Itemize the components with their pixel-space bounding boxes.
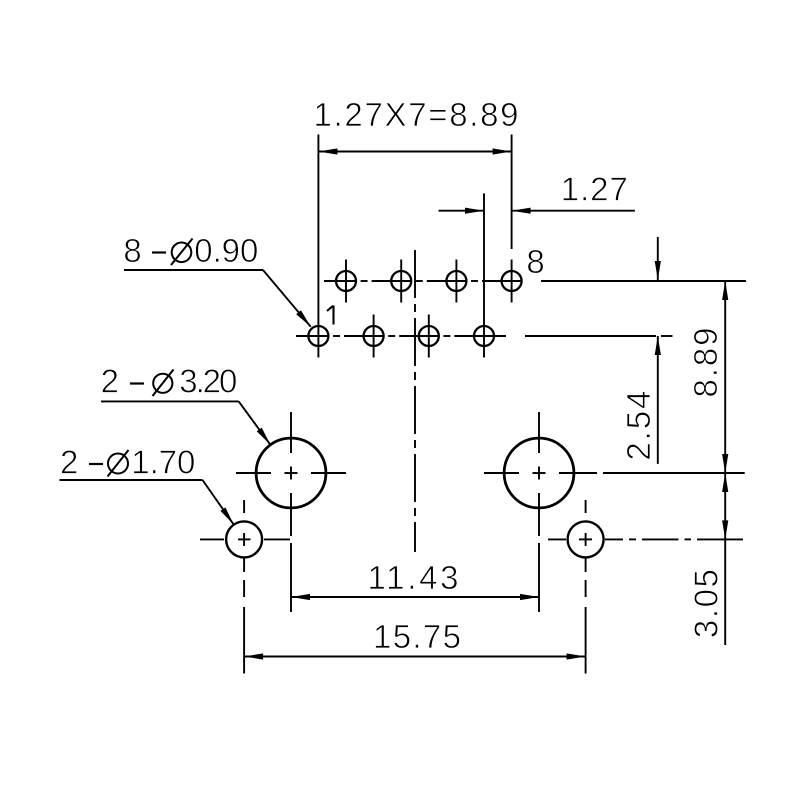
svg-text:2.54: 2.54: [620, 391, 657, 461]
svg-text:3.05: 3.05: [687, 569, 724, 638]
svg-text:1.27: 1.27: [561, 170, 628, 207]
svg-text:3.20: 3.20: [179, 363, 237, 400]
svg-text:1.27X7=8.89: 1.27X7=8.89: [314, 96, 519, 133]
svg-text:1.70: 1.70: [131, 444, 195, 481]
svg-text:11.43: 11.43: [368, 559, 459, 596]
svg-text:2: 2: [101, 363, 119, 400]
svg-text:8: 8: [123, 232, 141, 269]
svg-text:8.89: 8.89: [687, 328, 724, 398]
svg-text:15.75: 15.75: [373, 618, 461, 655]
svg-text:8: 8: [526, 243, 544, 280]
svg-text:0.90: 0.90: [194, 232, 258, 269]
svg-text:2: 2: [60, 444, 78, 481]
